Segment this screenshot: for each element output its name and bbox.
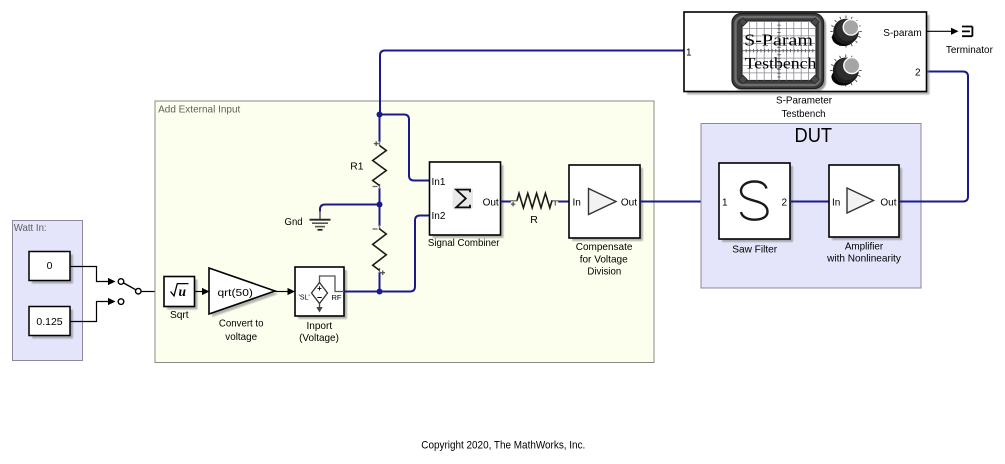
amplifier triangle icon xyxy=(589,189,617,215)
wire S-Param port 1 to node C xyxy=(380,51,684,115)
wire switch to Sqrt xyxy=(142,288,164,295)
manual switch xyxy=(118,279,141,305)
svg-text:Gnd: Gnd xyxy=(285,216,303,228)
wire node A to ground xyxy=(320,205,380,212)
wire node B to Signal Combiner In2 xyxy=(380,216,431,292)
wire constant 0.125 to switch bottom input xyxy=(70,298,116,322)
svg-text:Copyright 2020, The MathWorks,: Copyright 2020, The MathWorks, Inc. xyxy=(421,439,585,451)
wire Amplifier Out to S-Param port 2 xyxy=(899,72,968,202)
svg-text:Amplifier: Amplifier xyxy=(845,241,884,253)
saw filter S icon xyxy=(741,182,768,220)
svg-text:In: In xyxy=(832,198,840,209)
wire Compensate Out to Saw Filter port 1 xyxy=(640,201,719,203)
area Watt In xyxy=(13,221,83,361)
knob K1 top xyxy=(830,16,862,48)
svg-text:−: − xyxy=(317,293,322,303)
scope screen text S-Param Testbench xyxy=(744,31,817,73)
wire Sqrt to gain xyxy=(195,288,210,295)
svg-text:S-param: S-param xyxy=(883,27,922,39)
svg-text:qrt(50): qrt(50) xyxy=(218,287,253,299)
svg-text:with Nonlinearity: with Nonlinearity xyxy=(826,253,901,265)
constant C1 value 0.125 xyxy=(29,307,73,339)
svg-text:(Voltage): (Voltage) xyxy=(299,332,339,344)
node C junction top xyxy=(377,112,383,118)
svg-text:Testbench: Testbench xyxy=(781,108,825,120)
scope center axes with ticks xyxy=(742,21,816,81)
svg-text:Sqrt: Sqrt xyxy=(170,309,189,321)
wire node C to Signal Combiner In1 xyxy=(380,115,431,181)
svg-text:In1: In1 xyxy=(432,177,446,188)
svg-text:Convert to: Convert to xyxy=(219,318,264,330)
svg-text:Saw Filter: Saw Filter xyxy=(732,244,777,256)
svg-text:0.125: 0.125 xyxy=(36,316,62,328)
svg-text:2: 2 xyxy=(781,198,787,209)
block Inport (Voltage) xyxy=(295,267,347,344)
svg-text:Out: Out xyxy=(880,198,896,209)
scope screen grid xyxy=(742,21,816,81)
S-Parameter Testbench label xyxy=(776,95,832,120)
svg-text:'SL': 'SL' xyxy=(299,295,310,302)
controlled source diamond xyxy=(312,283,328,304)
knob K2 bottom xyxy=(830,55,862,87)
svg-text:R1: R1 xyxy=(350,160,363,172)
svg-text:In: In xyxy=(573,198,581,209)
block Sqrt xyxy=(164,277,198,322)
svg-text:Compensate: Compensate xyxy=(576,241,633,253)
wire constant 0 to switch top input xyxy=(70,267,116,286)
amplifier triangle icon xyxy=(847,188,874,213)
block Signal Combiner xyxy=(428,162,504,249)
wire Inport RF to node B xyxy=(344,291,380,293)
node A junction mid xyxy=(377,202,383,208)
block Terminator xyxy=(946,27,993,56)
svg-text:In2: In2 xyxy=(432,211,446,222)
svg-text:Signal Combiner: Signal Combiner xyxy=(428,237,500,249)
block Amplifier with Nonlinearity xyxy=(826,165,902,265)
svg-text:voltage: voltage xyxy=(225,331,257,343)
scope corner screws xyxy=(739,18,819,84)
svg-text:u: u xyxy=(179,284,187,299)
svg-text:R: R xyxy=(530,214,538,226)
svg-text:1: 1 xyxy=(686,48,692,59)
resistor R horizontal xyxy=(501,193,570,226)
sigma icon xyxy=(456,190,470,208)
svg-text:0: 0 xyxy=(47,260,53,272)
node B junction xyxy=(377,289,383,295)
gain Convert to voltage xyxy=(209,268,278,343)
svg-text:Out: Out xyxy=(483,198,499,209)
svg-text:1: 1 xyxy=(722,198,728,209)
wire gain to Inport xyxy=(275,288,295,295)
block S-Parameter Testbench xyxy=(684,12,930,95)
area Add External Input xyxy=(155,101,654,363)
area DUT xyxy=(701,124,921,289)
svg-text:S-Param: S-Param xyxy=(744,31,813,50)
svg-text:DUT: DUT xyxy=(795,124,833,147)
wire S-param to Terminator xyxy=(927,28,959,35)
svg-text:Division: Division xyxy=(587,266,621,278)
resistor R1 xyxy=(350,115,386,205)
constant C0 value 0 xyxy=(29,252,73,284)
block Saw Filter xyxy=(719,163,793,256)
resistor R2 lower xyxy=(373,205,387,292)
sqrt icon xyxy=(171,284,189,296)
svg-text:2: 2 xyxy=(915,68,921,79)
svg-text:RF: RF xyxy=(332,293,342,302)
block Compensate for Voltage Division xyxy=(569,165,643,278)
svg-text:for Voltage: for Voltage xyxy=(580,253,628,265)
S-Param scope screen bezel xyxy=(732,14,826,92)
wire Saw Filter port 2 to Amplifier In xyxy=(790,201,829,203)
svg-text:Terminator: Terminator xyxy=(946,44,993,56)
svg-text:Add External Input: Add External Input xyxy=(158,103,240,115)
svg-text:Testbench: Testbench xyxy=(745,56,817,73)
inport internal wire to RF xyxy=(320,276,345,292)
svg-text:S-Parameter: S-Parameter xyxy=(776,95,832,107)
ground Gnd xyxy=(285,211,331,230)
svg-text:Out: Out xyxy=(621,198,637,209)
svg-text:Inport: Inport xyxy=(306,320,332,332)
svg-text:Watt In:: Watt In: xyxy=(14,222,47,234)
